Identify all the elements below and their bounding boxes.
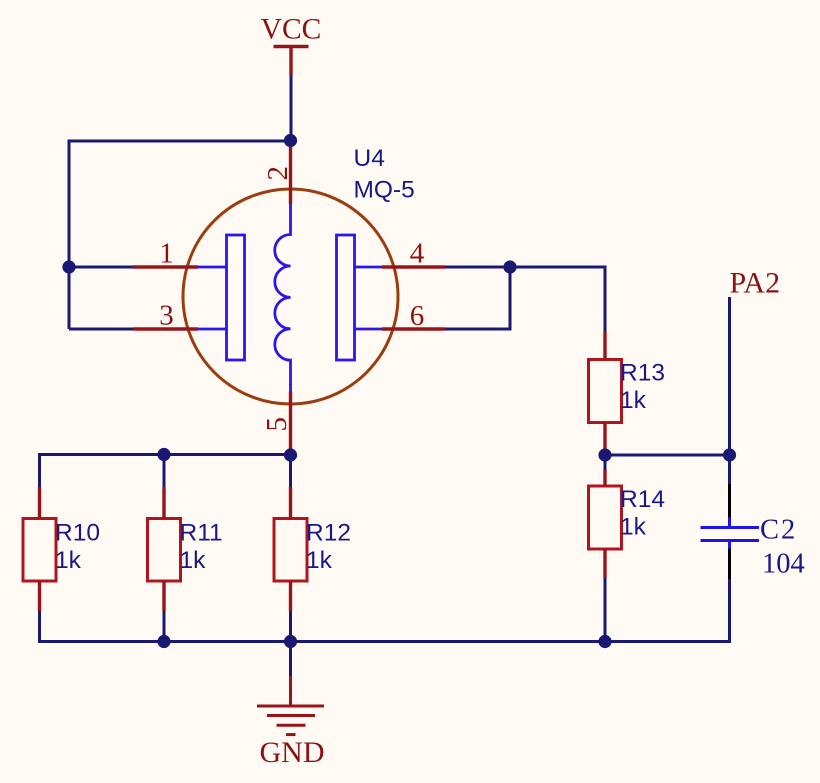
ground symbol	[257, 676, 324, 735]
wire R14 bottom lead	[604, 578, 607, 642]
capacitor C2 plates	[701, 518, 760, 549]
pin 4 stub	[382, 265, 445, 268]
wire R11 top lead	[163, 455, 166, 488]
R11 bottom pin	[162, 581, 165, 611]
svg-text:1k: 1k	[306, 547, 333, 574]
pin 6 stub	[382, 327, 445, 330]
pin 3 stub	[133, 327, 198, 330]
left plate	[227, 235, 245, 360]
svg-text:U4: U4	[354, 145, 385, 172]
svg-text:C2: C2	[760, 515, 797, 546]
wire PA2 down through C2 top	[728, 297, 731, 484]
svg-text:1: 1	[159, 238, 174, 270]
resistor R11	[148, 519, 181, 582]
capacitor C2 top pin (black)	[728, 484, 731, 518]
plate lead pin3	[198, 328, 227, 331]
wire R12 bottom lead	[289, 611, 292, 642]
pin 2 stub	[289, 147, 292, 204]
junction top bus R11	[157, 448, 170, 461]
wire R13 to R14	[604, 450, 607, 470]
wire top bus + R10 top lead	[40, 455, 291, 488]
R13 bottom pin	[603, 423, 606, 451]
svg-text:104: 104	[762, 549, 805, 580]
svg-text:MQ-5: MQ-5	[354, 177, 415, 204]
power symbol VCC	[274, 47, 309, 77]
svg-text:1k: 1k	[55, 547, 82, 574]
pin 5 stub	[289, 392, 292, 451]
plate lead pin6	[355, 328, 383, 331]
wire pin 6 to pin 4 junction	[445, 267, 510, 329]
wire to pin 3	[69, 328, 133, 331]
svg-text:R11: R11	[180, 520, 223, 547]
R10 bottom pin	[38, 581, 41, 611]
svg-text:5: 5	[261, 417, 293, 432]
svg-text:VCC: VCC	[261, 14, 322, 46]
wire to pin 1	[69, 266, 133, 269]
R12 top pin	[289, 487, 292, 519]
svg-text:2: 2	[262, 166, 294, 181]
R12 bottom pin	[289, 581, 292, 611]
junction bottom bus R12 GND	[284, 635, 297, 648]
plate lead pin4	[355, 266, 383, 269]
wire VCC stem to junction	[290, 76, 293, 141]
svg-text:R10: R10	[55, 520, 100, 547]
svg-text:3: 3	[159, 300, 174, 332]
R13 top pin	[603, 331, 606, 360]
svg-text:R12: R12	[306, 520, 351, 547]
svg-text:4: 4	[410, 238, 425, 270]
wire R11 bottom lead	[163, 611, 166, 642]
resistor R10	[23, 519, 56, 582]
resistor R14	[589, 486, 622, 549]
wire GND stem	[289, 642, 292, 677]
R11 top pin	[162, 487, 165, 519]
wire R12 top lead	[289, 455, 292, 487]
R10 top pin	[38, 487, 41, 519]
right plate	[337, 235, 355, 360]
plate lead pin1	[198, 266, 227, 269]
junction bottom bus R11	[157, 635, 170, 648]
svg-text:1k: 1k	[180, 547, 207, 574]
pin 1 stub	[133, 265, 198, 268]
wire pin 4 to R13 corner	[445, 267, 605, 331]
junction pin4	[503, 260, 516, 273]
R14 top pin	[603, 470, 606, 486]
svg-text:1k: 1k	[620, 514, 647, 541]
svg-text:6: 6	[410, 300, 425, 332]
junction VCC	[284, 134, 297, 147]
junction R13 R14	[598, 448, 611, 461]
junction top bus pin5	[284, 448, 297, 461]
sensor U4 MQ-5 body circle	[183, 189, 398, 404]
R14 bottom pin	[603, 549, 606, 578]
wire top horizontal + left vertical	[69, 141, 291, 329]
svg-text:PA2: PA2	[730, 267, 781, 300]
resistor R12	[274, 519, 307, 582]
wire bottom bus	[40, 579, 730, 642]
svg-text:R13: R13	[620, 360, 665, 387]
heater coil	[275, 204, 291, 392]
svg-text:GND: GND	[260, 736, 325, 769]
junction bottom bus R14	[598, 635, 611, 648]
resistor R13	[589, 360, 622, 423]
junction pin1 left	[62, 260, 75, 273]
wire mid horizontal to C2	[605, 454, 730, 457]
svg-text:1k: 1k	[620, 387, 647, 414]
junction C2 PA2	[723, 448, 736, 461]
svg-text:R14: R14	[620, 486, 665, 513]
capacitor C2 bottom pin (black)	[728, 549, 731, 580]
